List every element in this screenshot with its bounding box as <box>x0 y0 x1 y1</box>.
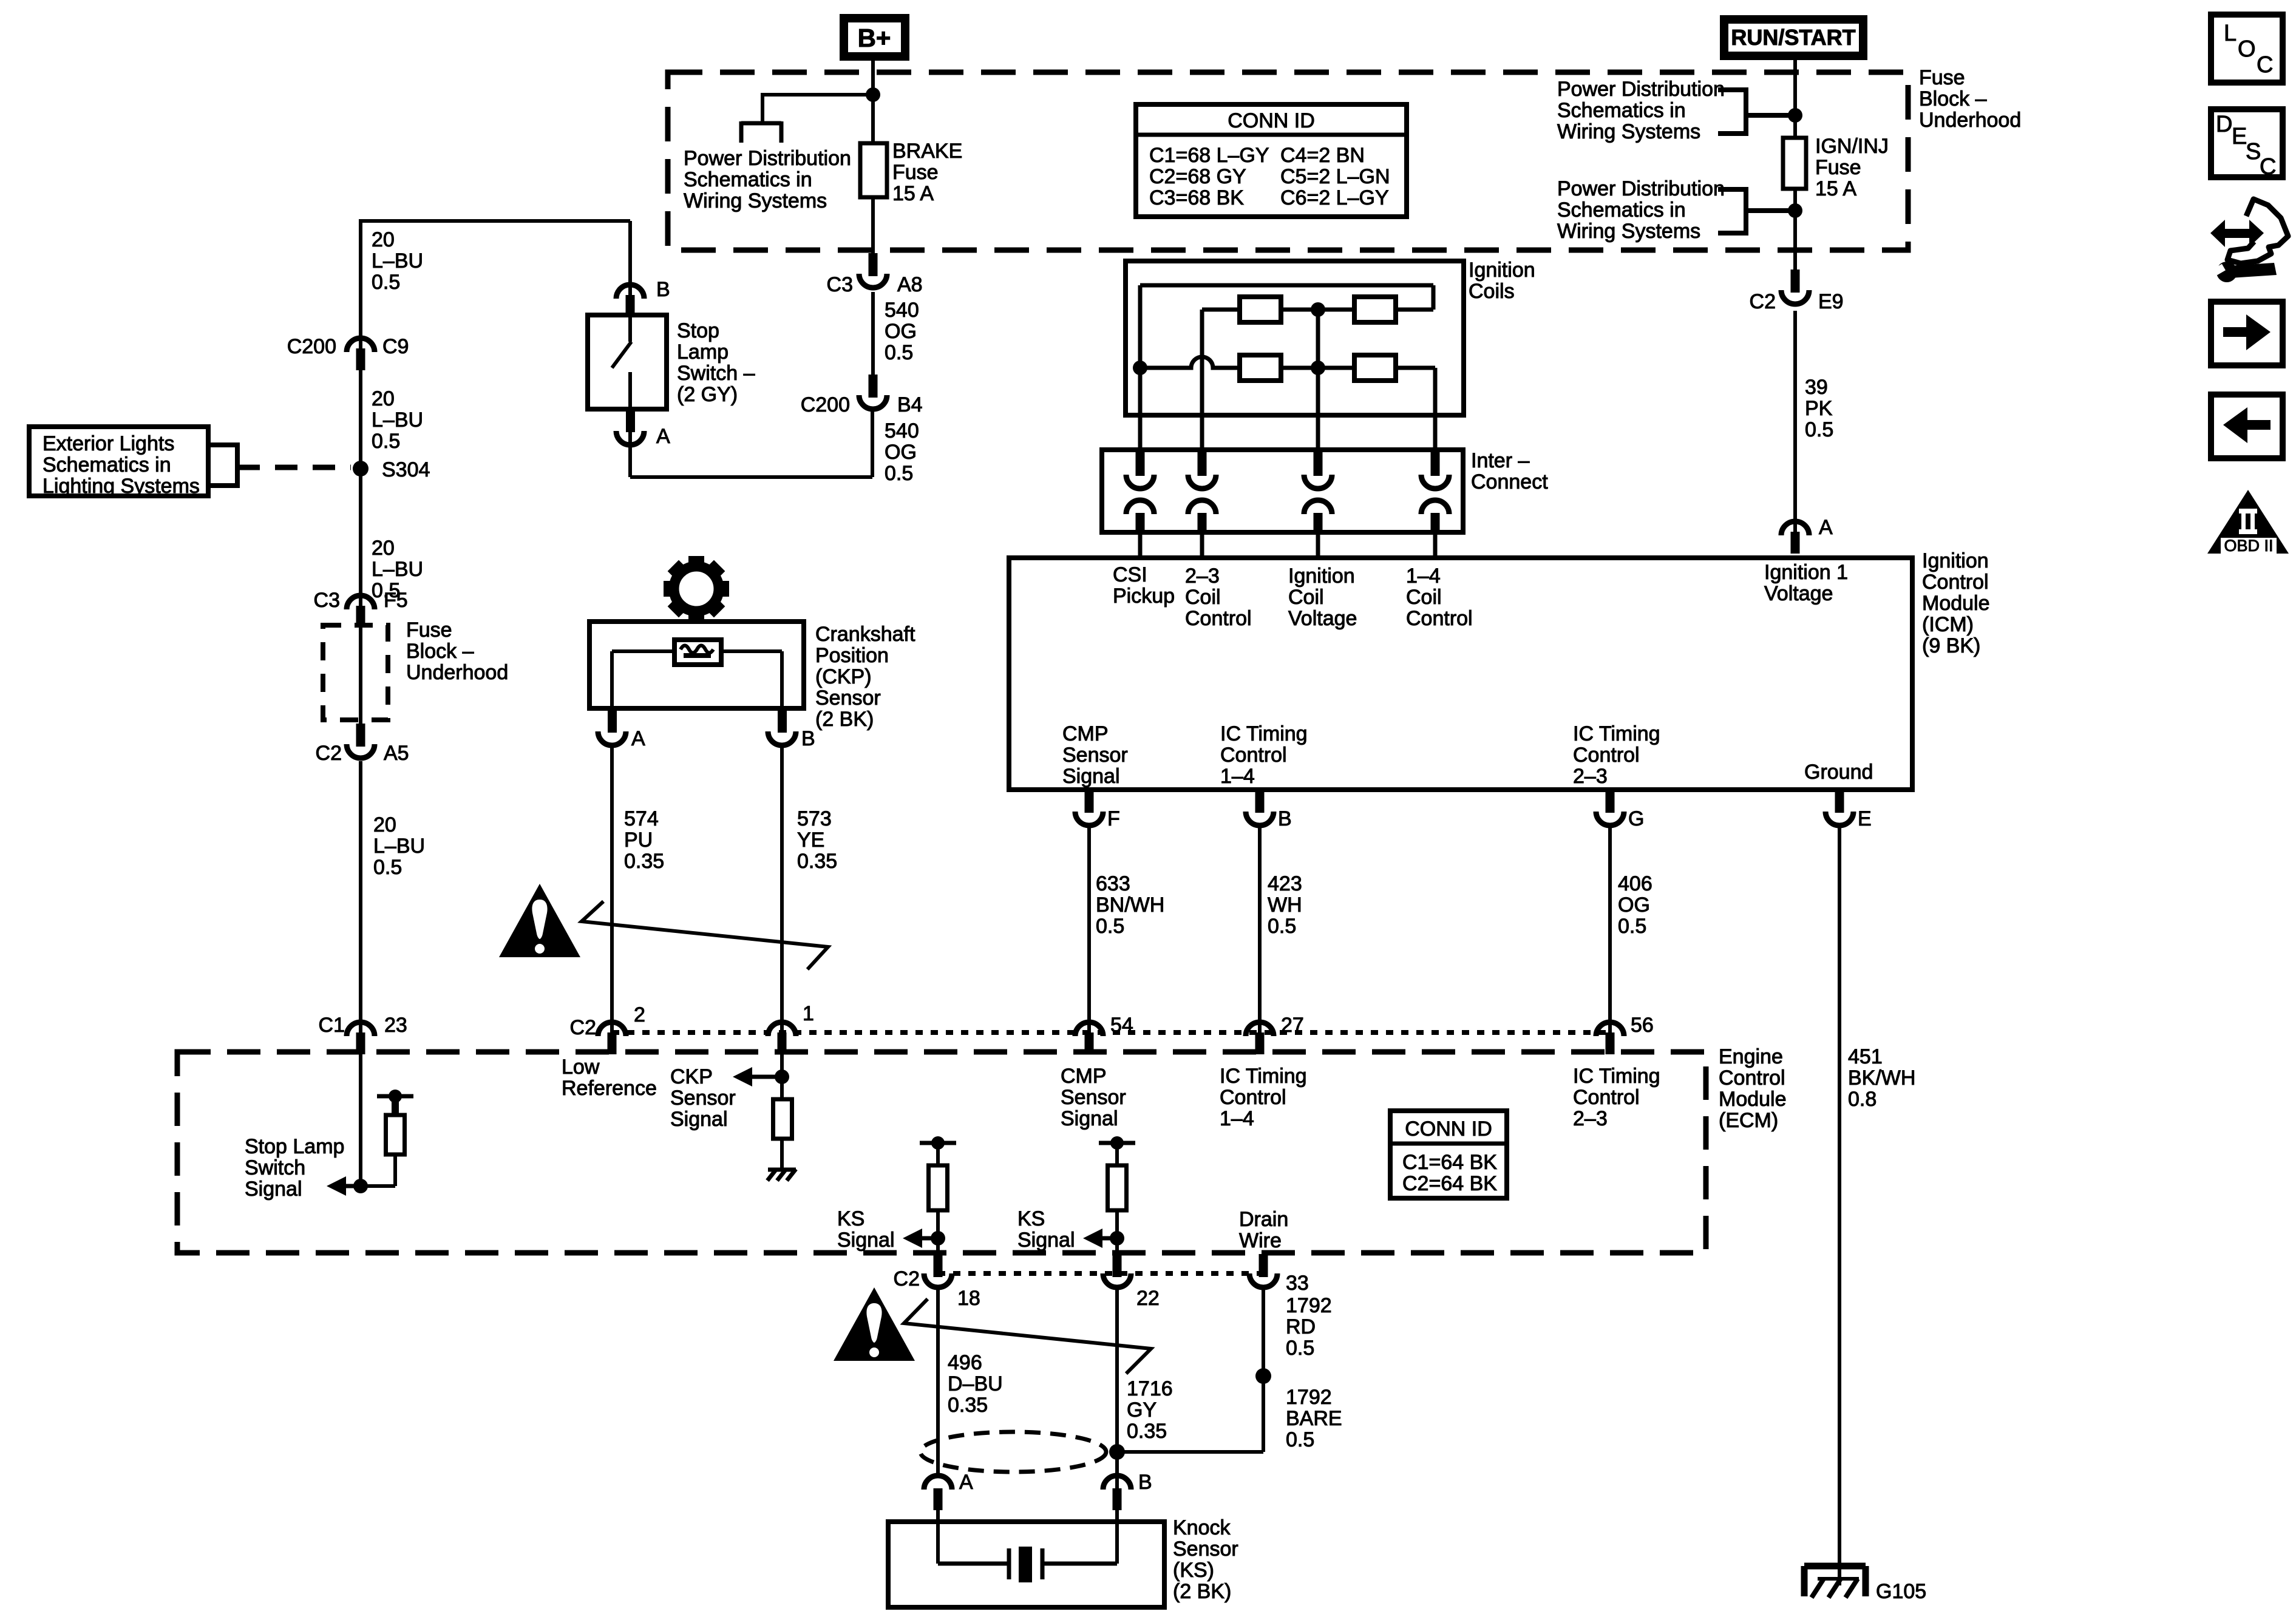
svg-text:RD: RD <box>1286 1315 1316 1338</box>
svg-text:Connect: Connect <box>1471 470 1548 493</box>
svg-text:Engine: Engine <box>1719 1045 1783 1068</box>
svg-text:Inter –: Inter – <box>1471 449 1529 472</box>
svg-text:C2: C2 <box>316 742 342 765</box>
svg-text:20: 20 <box>372 228 395 251</box>
svg-text:L–BU: L–BU <box>372 408 423 432</box>
svg-text:OG: OG <box>885 441 917 464</box>
svg-text:Schematics in: Schematics in <box>1557 99 1686 122</box>
svg-text:Sensor: Sensor <box>1062 744 1128 767</box>
svg-text:G: G <box>1628 807 1644 830</box>
svg-text:F: F <box>1107 807 1120 830</box>
svg-text:0.5: 0.5 <box>885 462 913 485</box>
svg-text:0.5: 0.5 <box>1805 418 1833 441</box>
svg-text:Stop Lamp: Stop Lamp <box>245 1135 344 1158</box>
svg-text:2–3: 2–3 <box>1573 765 1608 788</box>
svg-text:Block –: Block – <box>406 640 474 663</box>
svg-text:(ECM): (ECM) <box>1719 1109 1778 1132</box>
svg-text:(ICM): (ICM) <box>1922 613 1974 636</box>
svg-text:OBD II: OBD II <box>2224 537 2273 555</box>
svg-text:Position: Position <box>815 644 889 667</box>
svg-text:BARE: BARE <box>1286 1407 1342 1430</box>
svg-text:0.5: 0.5 <box>1268 915 1296 938</box>
svg-text:0.5: 0.5 <box>1286 1428 1314 1451</box>
svg-text:YE: YE <box>797 829 824 852</box>
svg-text:Low: Low <box>562 1056 600 1079</box>
svg-text:Sensor: Sensor <box>815 686 881 710</box>
svg-text:L–BU: L–BU <box>372 558 423 581</box>
svg-text:20: 20 <box>372 387 395 410</box>
svg-text:C4=2 BN: C4=2 BN <box>1280 144 1365 167</box>
svg-text:23: 23 <box>384 1014 407 1037</box>
svg-text:IC Timing: IC Timing <box>1573 722 1660 745</box>
svg-text:C2: C2 <box>570 1016 596 1039</box>
svg-text:Control: Control <box>1220 1086 1286 1109</box>
svg-text:A: A <box>631 727 645 750</box>
svg-text:22: 22 <box>1136 1287 1160 1310</box>
svg-text:A5: A5 <box>384 742 409 765</box>
svg-text:Coils: Coils <box>1469 280 1515 303</box>
svg-text:G105: G105 <box>1876 1580 1926 1603</box>
svg-text:E: E <box>1858 807 1872 830</box>
svg-text:Module: Module <box>1719 1088 1787 1111</box>
svg-text:C2: C2 <box>894 1267 920 1290</box>
svg-text:39: 39 <box>1805 376 1828 399</box>
svg-text:Lighting Systems: Lighting Systems <box>42 475 200 498</box>
svg-text:Wiring Systems: Wiring Systems <box>1557 220 1700 243</box>
svg-text:(2 BK): (2 BK) <box>1173 1580 1231 1603</box>
svg-text:0.5: 0.5 <box>1096 915 1124 938</box>
svg-text:L–BU: L–BU <box>373 835 425 858</box>
svg-text:Schematics in: Schematics in <box>1557 198 1686 222</box>
svg-text:0.8: 0.8 <box>1848 1088 1877 1111</box>
svg-text:OG: OG <box>1618 893 1650 917</box>
svg-text:Knock: Knock <box>1173 1516 1231 1539</box>
svg-text:56: 56 <box>1631 1014 1654 1037</box>
svg-text:E: E <box>2232 124 2247 149</box>
svg-text:Control: Control <box>1185 607 1252 630</box>
svg-text:C: C <box>2257 52 2273 78</box>
svg-text:Wiring Systems: Wiring Systems <box>684 189 827 212</box>
svg-text:Signal: Signal <box>670 1108 728 1131</box>
svg-text:C3: C3 <box>827 273 853 296</box>
svg-text:C2=64 BK: C2=64 BK <box>1402 1172 1497 1195</box>
svg-text:Voltage: Voltage <box>1764 582 1833 605</box>
svg-text:BK/WH: BK/WH <box>1848 1066 1915 1090</box>
svg-text:Fuse: Fuse <box>892 161 939 184</box>
svg-text:Control: Control <box>1406 607 1473 630</box>
svg-text:Pickup: Pickup <box>1113 585 1175 608</box>
svg-text:IC Timing: IC Timing <box>1573 1065 1660 1088</box>
svg-text:54: 54 <box>1110 1014 1133 1037</box>
svg-text:0.5: 0.5 <box>372 430 400 453</box>
svg-text:Lamp: Lamp <box>677 341 729 364</box>
svg-text:1–4: 1–4 <box>1406 564 1441 588</box>
svg-text:Control: Control <box>1220 744 1287 767</box>
svg-text:C1=68 L–GY: C1=68 L–GY <box>1149 144 1269 167</box>
svg-text:2–3: 2–3 <box>1185 564 1220 588</box>
svg-text:Coil: Coil <box>1288 586 1324 609</box>
svg-text:O: O <box>2238 36 2256 62</box>
svg-text:Module: Module <box>1922 592 1990 615</box>
svg-text:B: B <box>1278 807 1292 830</box>
svg-text:CONN ID: CONN ID <box>1405 1117 1492 1141</box>
svg-text:PU: PU <box>624 829 653 852</box>
svg-text:Coil: Coil <box>1406 586 1442 609</box>
svg-text:Schematics in: Schematics in <box>684 168 812 191</box>
svg-text:2: 2 <box>634 1003 645 1026</box>
svg-text:B4: B4 <box>897 393 923 416</box>
svg-text:Underhood: Underhood <box>1919 109 2021 132</box>
svg-text:C2: C2 <box>1750 290 1776 313</box>
svg-text:B: B <box>801 727 815 750</box>
svg-text:573: 573 <box>797 807 832 830</box>
svg-text:F5: F5 <box>384 589 408 612</box>
svg-text:1–4: 1–4 <box>1220 765 1255 788</box>
svg-text:CMP: CMP <box>1061 1065 1107 1088</box>
svg-text:2–3: 2–3 <box>1573 1107 1608 1130</box>
svg-text:33: 33 <box>1286 1272 1309 1295</box>
svg-text:Wire: Wire <box>1239 1229 1282 1252</box>
svg-text:IGN/INJ: IGN/INJ <box>1815 135 1889 158</box>
svg-text:BRAKE: BRAKE <box>892 140 962 163</box>
svg-text:CONN ID: CONN ID <box>1228 109 1315 132</box>
svg-text:0.5: 0.5 <box>373 856 402 879</box>
svg-text:D: D <box>2216 112 2232 137</box>
svg-text:Switch –: Switch – <box>677 362 755 385</box>
svg-text:IC Timing: IC Timing <box>1220 1065 1307 1088</box>
svg-text:Sensor: Sensor <box>1173 1537 1238 1561</box>
svg-text:1: 1 <box>803 1002 814 1025</box>
svg-text:0.5: 0.5 <box>1618 915 1646 938</box>
svg-text:C200: C200 <box>801 393 850 416</box>
svg-text:Signal: Signal <box>1062 765 1120 788</box>
svg-text:Fuse: Fuse <box>1815 156 1861 179</box>
svg-text:Coil: Coil <box>1185 586 1221 609</box>
svg-text:Sensor: Sensor <box>670 1086 736 1110</box>
svg-text:Exterior Lights: Exterior Lights <box>42 432 174 455</box>
svg-text:PK: PK <box>1805 397 1833 420</box>
svg-text:Ignition: Ignition <box>1288 564 1355 588</box>
svg-text:B+: B+ <box>858 24 891 52</box>
svg-text:20: 20 <box>372 537 395 560</box>
svg-text:IC Timing: IC Timing <box>1220 722 1308 745</box>
svg-text:540: 540 <box>885 419 919 442</box>
svg-text:Ignition 1: Ignition 1 <box>1764 561 1848 584</box>
svg-text:0.35: 0.35 <box>797 850 837 873</box>
svg-text:RUN/START: RUN/START <box>1731 25 1855 50</box>
svg-text:Signal: Signal <box>1017 1229 1075 1252</box>
svg-text:Ground: Ground <box>1804 761 1873 784</box>
svg-text:S: S <box>2246 139 2261 164</box>
svg-text:Control: Control <box>1573 1086 1640 1109</box>
svg-text:C2=68 GY: C2=68 GY <box>1149 165 1246 188</box>
svg-text:(2 GY): (2 GY) <box>677 383 738 406</box>
svg-text:(9 BK): (9 BK) <box>1922 634 1980 657</box>
svg-text:Ignition: Ignition <box>1922 549 1989 572</box>
svg-text:C9: C9 <box>382 335 409 358</box>
svg-text:Ignition: Ignition <box>1469 259 1535 282</box>
svg-text:CKP: CKP <box>670 1065 713 1088</box>
svg-text:Control: Control <box>1573 744 1640 767</box>
svg-text:0.35: 0.35 <box>624 850 664 873</box>
svg-text:Stop: Stop <box>677 319 719 342</box>
svg-text:1716: 1716 <box>1127 1377 1173 1400</box>
svg-text:0.35: 0.35 <box>948 1394 988 1417</box>
svg-text:A8: A8 <box>897 273 923 296</box>
svg-text:27: 27 <box>1281 1014 1304 1037</box>
svg-text:C6=2 L–GY: C6=2 L–GY <box>1280 186 1389 209</box>
svg-text:1–4: 1–4 <box>1220 1107 1254 1130</box>
svg-text:Voltage: Voltage <box>1288 607 1357 630</box>
svg-text:Underhood: Underhood <box>406 661 508 684</box>
svg-text:Block –: Block – <box>1919 87 1987 110</box>
svg-text:633: 633 <box>1096 872 1130 895</box>
svg-text:B: B <box>1138 1471 1152 1494</box>
svg-text:Wiring Systems: Wiring Systems <box>1557 120 1700 143</box>
svg-text:574: 574 <box>624 807 659 830</box>
svg-text:CMP: CMP <box>1062 722 1109 745</box>
svg-text:CSI: CSI <box>1113 563 1147 586</box>
svg-text:18: 18 <box>957 1287 980 1310</box>
svg-text:Power Distribution: Power Distribution <box>1557 177 1725 200</box>
svg-text:Control: Control <box>1719 1066 1785 1090</box>
svg-text:0.5: 0.5 <box>885 341 913 364</box>
svg-text:15 A: 15 A <box>892 182 934 205</box>
svg-text:WH: WH <box>1268 893 1302 917</box>
svg-text:E9: E9 <box>1818 290 1844 313</box>
svg-text:0.5: 0.5 <box>372 271 400 294</box>
svg-text:20: 20 <box>373 813 396 836</box>
svg-text:B: B <box>656 278 670 301</box>
svg-text:Schematics in: Schematics in <box>42 453 171 476</box>
svg-text:Signal: Signal <box>837 1229 895 1252</box>
svg-text:1792: 1792 <box>1286 1386 1332 1409</box>
svg-text:Fuse: Fuse <box>406 619 452 642</box>
svg-text:496: 496 <box>948 1351 982 1374</box>
svg-text:Sensor: Sensor <box>1061 1086 1126 1109</box>
svg-text:OG: OG <box>885 320 917 343</box>
svg-text:C5=2 L–GN: C5=2 L–GN <box>1280 165 1390 188</box>
svg-text:406: 406 <box>1618 872 1652 895</box>
svg-text:A: A <box>656 425 670 448</box>
svg-text:Signal: Signal <box>1061 1107 1118 1130</box>
svg-text:D–BU: D–BU <box>948 1372 1003 1395</box>
svg-text:540: 540 <box>885 299 919 322</box>
svg-text:Crankshaft: Crankshaft <box>815 623 915 646</box>
svg-text:451: 451 <box>1848 1045 1883 1068</box>
svg-text:C3=68 BK: C3=68 BK <box>1149 186 1244 209</box>
svg-text:423: 423 <box>1268 872 1302 895</box>
svg-text:S304: S304 <box>382 458 430 481</box>
svg-text:Signal: Signal <box>245 1178 302 1201</box>
svg-text:0.35: 0.35 <box>1127 1420 1167 1443</box>
svg-text:KS: KS <box>1017 1207 1045 1230</box>
svg-text:Control: Control <box>1922 571 1989 594</box>
svg-text:C200: C200 <box>287 335 336 358</box>
svg-text:KS: KS <box>837 1207 864 1230</box>
svg-text:(CKP): (CKP) <box>815 665 872 688</box>
svg-text:(2 BK): (2 BK) <box>815 708 874 731</box>
svg-text:(KS): (KS) <box>1173 1559 1214 1582</box>
svg-text:Power Distribution: Power Distribution <box>684 147 851 170</box>
svg-text:C: C <box>2260 154 2276 180</box>
svg-text:Reference: Reference <box>562 1077 657 1100</box>
svg-text:L–BU: L–BU <box>372 249 423 273</box>
svg-text:L: L <box>2224 21 2237 46</box>
svg-text:Power Distribution: Power Distribution <box>1557 78 1725 101</box>
svg-text:Switch: Switch <box>245 1156 305 1179</box>
svg-text:C3: C3 <box>314 589 340 612</box>
svg-text:C1: C1 <box>319 1014 345 1037</box>
svg-text:BN/WH: BN/WH <box>1096 893 1164 917</box>
svg-text:A: A <box>1819 516 1833 539</box>
svg-text:GY: GY <box>1127 1398 1156 1422</box>
svg-text:Drain: Drain <box>1239 1208 1288 1231</box>
svg-text:A: A <box>959 1471 973 1494</box>
svg-text:C1=64 BK: C1=64 BK <box>1402 1151 1497 1174</box>
svg-text:0.5: 0.5 <box>1286 1337 1314 1360</box>
svg-text:15 A: 15 A <box>1815 177 1856 200</box>
svg-text:Fuse: Fuse <box>1919 66 1965 89</box>
svg-text:1792: 1792 <box>1286 1294 1332 1317</box>
